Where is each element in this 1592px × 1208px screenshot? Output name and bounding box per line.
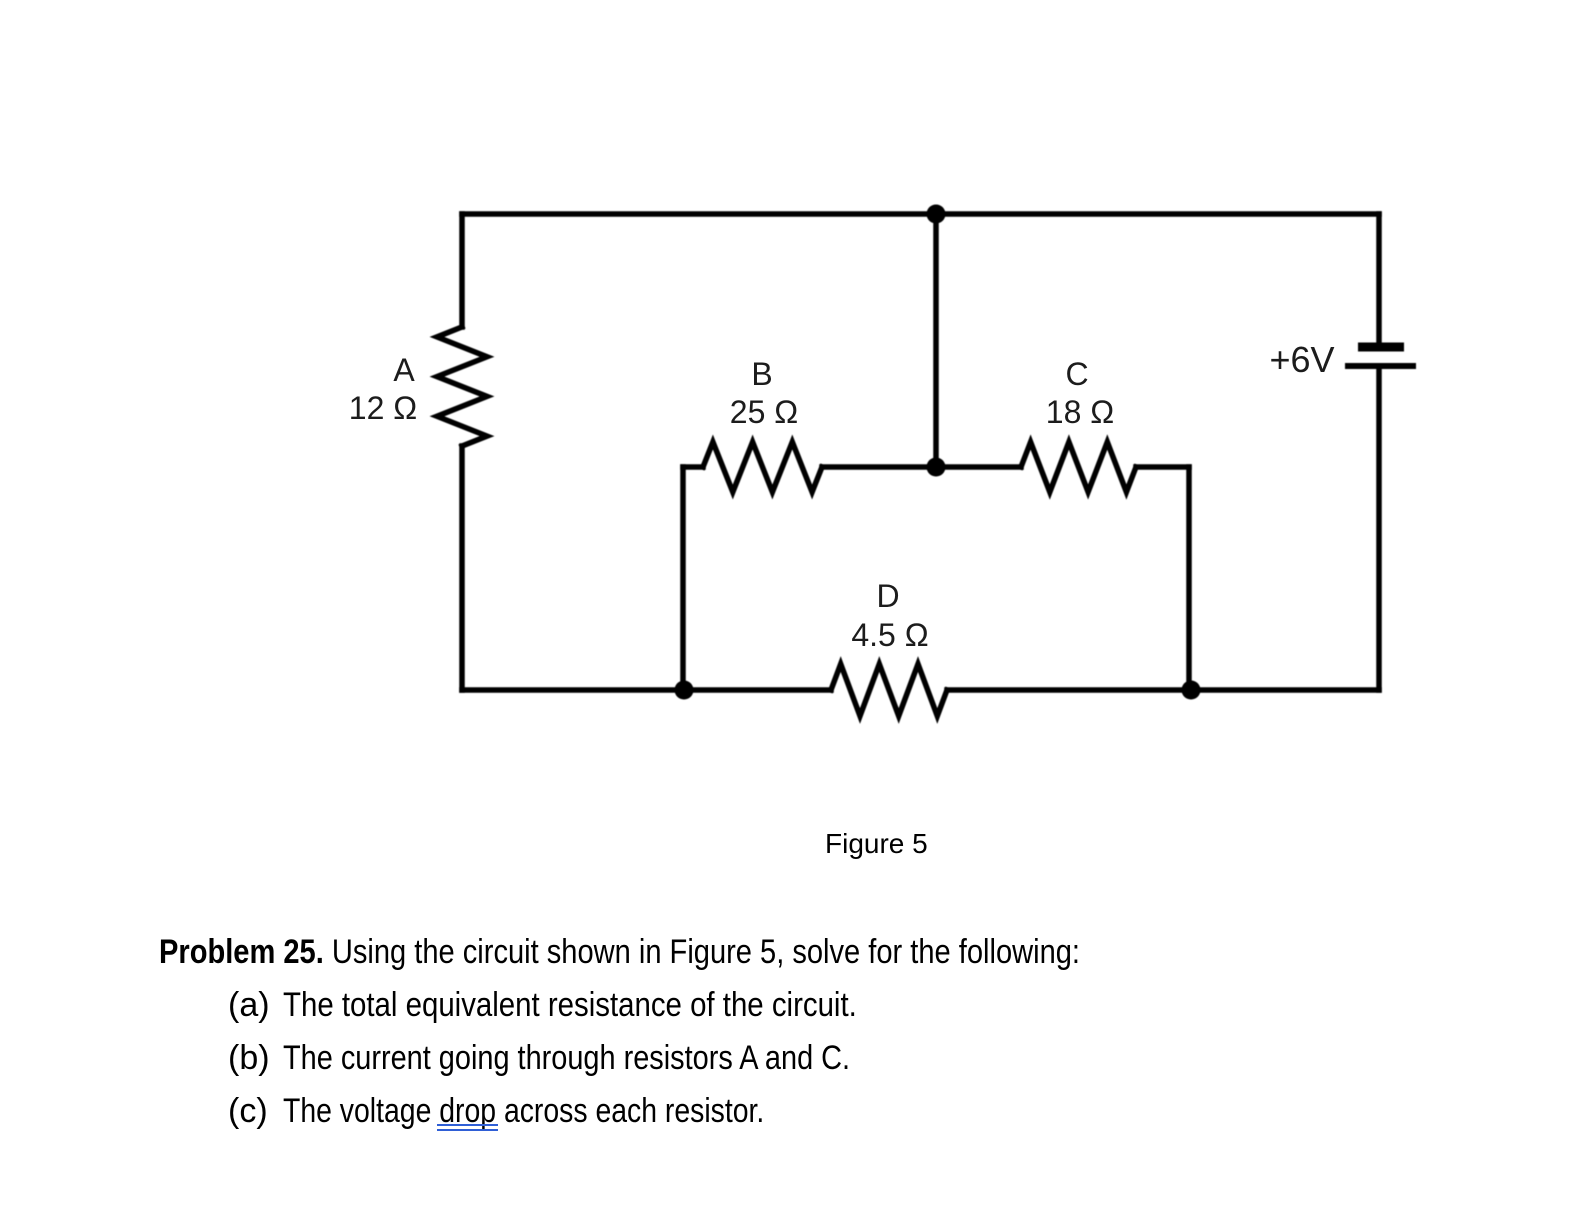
text: problem statement line: [159, 935, 1080, 969]
node: junction dot on middle branch: [927, 458, 946, 477]
label: resistor C value 18 Ω: [1046, 396, 1114, 428]
label: resistor C designator: [1065, 358, 1088, 390]
label: resistor A designator: [393, 354, 414, 386]
wire: branch left vertical drop: [680, 467, 686, 690]
text: item (c): [228, 1094, 268, 1128]
caption: Figure 5: [825, 830, 928, 858]
node: junction dot bottom left: [675, 681, 694, 700]
wire: right vertical below battery: [1376, 369, 1382, 690]
resistor A 12Ω (vertical zigzag): [437, 327, 487, 446]
node: junction dot top (T of middle branch): [927, 205, 946, 224]
battery V1 +6V: bottom plate (long thin): [1345, 363, 1416, 369]
label: battery voltage +6V: [1269, 342, 1334, 378]
label: resistor B designator: [751, 358, 772, 390]
text: item (b): [228, 1041, 270, 1075]
grammar underline lower line under word drop: [437, 1129, 498, 1131]
wire: branch right vertical drop: [1186, 467, 1192, 690]
resistor C 18Ω (horizontal zigzag): [1021, 442, 1136, 492]
grammar underline upper line under word drop: [437, 1124, 498, 1126]
wire: middle branch right lead: [1136, 464, 1189, 470]
wire: left vertical above resistor A: [459, 214, 465, 327]
label: resistor D value 4.5 Ω: [851, 619, 928, 651]
wire: top horizontal: [462, 211, 1379, 217]
text: item (a): [228, 988, 270, 1022]
wire: middle vertical from top node: [933, 214, 939, 467]
resistor D 4.5Ω (horizontal zigzag): [831, 664, 947, 716]
wire: bottom horizontal right of resistor D: [947, 687, 1379, 693]
wire: middle branch between B and C: [822, 464, 1021, 470]
wire: left vertical below resistor A: [459, 446, 465, 690]
wire: bottom horizontal left of resistor D: [462, 687, 831, 693]
wire: right vertical above battery: [1376, 214, 1382, 342]
resistor B 25Ω (horizontal zigzag): [703, 442, 822, 492]
label: resistor B value 25 Ω: [730, 396, 798, 428]
node: junction dot bottom right: [1182, 681, 1201, 700]
wire: middle branch left lead: [683, 464, 703, 470]
label: resistor D designator: [876, 580, 899, 612]
label: resistor A value 12 Ω: [349, 392, 417, 424]
battery V1 +6V: top plate (short thick): [1358, 343, 1404, 352]
